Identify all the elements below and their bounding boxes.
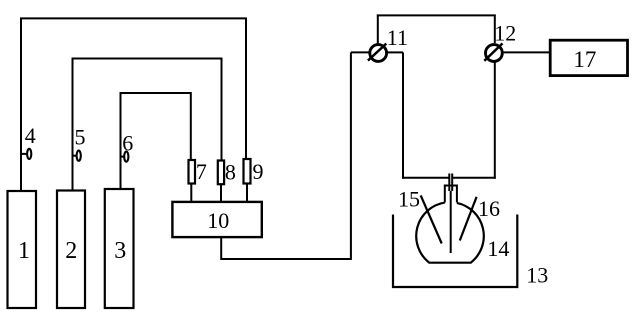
svg-text:2: 2: [65, 238, 77, 264]
wire valve 12 to box 17: [504, 51, 551, 53]
wire valve 11 riser: [377, 15, 379, 44]
valve 4: [21, 149, 31, 159]
wire flowmeter 9 to box 10: [246, 184, 248, 203]
valve 6: [121, 152, 129, 162]
svg-text:8: 8: [225, 160, 236, 185]
svg-text:5: 5: [75, 125, 86, 150]
svg-text:4: 4: [25, 123, 36, 148]
svg-text:3: 3: [114, 238, 126, 264]
wire valve 12 down leg: [494, 62, 496, 179]
svg-text:11: 11: [387, 25, 408, 50]
flask 14: [416, 203, 484, 263]
svg-text:12: 12: [494, 21, 516, 46]
wire flowmeter 7 to box 10: [190, 184, 192, 203]
wire riser from cylinder 3: [121, 93, 191, 189]
svg-text:7: 7: [196, 159, 207, 184]
svg-text:9: 9: [253, 159, 264, 184]
wire inlet pipe right: [452, 177, 496, 179]
wire valve 12 riser: [494, 15, 496, 43]
wire valve 11 down leg: [402, 52, 404, 178]
cylinder 3: [105, 189, 134, 308]
inlet tube: [449, 174, 452, 254]
valve 5: [73, 151, 81, 161]
tube 15: [421, 195, 442, 243]
svg-text:17: 17: [573, 47, 596, 72]
cylinder 2: [57, 191, 85, 309]
cylinder 1: [8, 191, 37, 308]
wire flowmeter 8 to box 10: [220, 184, 222, 202]
wire riser from cylinder 2: [73, 59, 222, 191]
flowmeter 7: [189, 160, 196, 184]
box 10: [172, 202, 261, 237]
svg-text:1: 1: [18, 238, 30, 264]
tube 16: [460, 197, 477, 241]
svg-text:13: 13: [526, 263, 548, 288]
bath 13: [393, 215, 517, 288]
svg-text:16: 16: [478, 196, 500, 221]
wire top connector: [377, 14, 496, 16]
valve 12: [484, 43, 502, 61]
box 17: [550, 40, 627, 75]
flowmeter 8: [218, 161, 224, 185]
svg-text:6: 6: [122, 131, 133, 156]
svg-text:15: 15: [398, 187, 420, 212]
valve 11: [351, 44, 403, 62]
svg-text:10: 10: [207, 208, 229, 233]
wire inlet pipe left: [402, 177, 449, 179]
svg-text:14: 14: [487, 236, 509, 261]
wire riser from cylinder 1: [21, 18, 246, 191]
flowmeter 9: [244, 159, 251, 184]
wire box 10 to valve 11: [221, 52, 351, 259]
flask neck: [445, 186, 457, 203]
